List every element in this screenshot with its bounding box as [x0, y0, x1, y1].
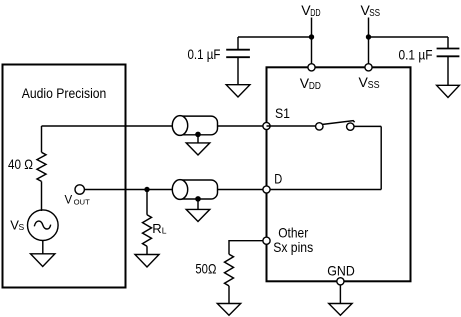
- wire: C1 top lead: [237, 37, 239, 49]
- ground under 50 ohm: [217, 304, 240, 316]
- pin label Other Sx pins: [273, 225, 313, 256]
- wire: VSS to C2: [369, 36, 449, 38]
- ground under VS: [31, 254, 55, 267]
- wire: VDD to C1: [238, 36, 312, 38]
- node VSS (top supply label): [361, 2, 381, 19]
- svg-text:0.1 µF: 0.1 µF: [188, 46, 221, 62]
- ground under C1: [226, 85, 250, 97]
- source VS (sine source): [28, 210, 59, 241]
- switch lever (open): [323, 121, 355, 125]
- junction dot at RL tap: [144, 187, 149, 192]
- ground under coax 2: [186, 209, 210, 221]
- box: DUT / switch IC: [267, 67, 411, 281]
- capacitor C1 plates: [226, 50, 250, 58]
- wire: S1 pin to switch: [267, 125, 316, 127]
- pin label VSS inside: [359, 74, 380, 91]
- capacitor C2 plates: [437, 49, 460, 57]
- svg-text:DD: DD: [309, 81, 321, 92]
- pin GND (open circle on DUT bottom edge): [337, 278, 344, 285]
- coax shield cable 2 (D line): [172, 180, 217, 200]
- wire: 50 ohm bottom lead: [228, 286, 230, 304]
- svg-text:D: D: [274, 170, 282, 186]
- svg-text:50Ω: 50Ω: [195, 260, 216, 276]
- svg-text:Other: Other: [278, 225, 308, 241]
- svg-text:V: V: [65, 195, 73, 207]
- label VOUT: [65, 195, 91, 207]
- junction dot on VSS wire: [366, 34, 371, 39]
- svg-text:L: L: [162, 226, 167, 236]
- wire: VDD vertical feed: [311, 18, 313, 67]
- wire: RL bottom lead: [146, 246, 148, 254]
- wire: VS to ground: [42, 241, 44, 254]
- wire: 40 ohm top lead: [41, 126, 43, 152]
- junction dot on coax 1 shield: [195, 132, 201, 138]
- svg-text:S: S: [19, 222, 25, 232]
- wire: coax 2 shield to ground: [197, 199, 199, 210]
- switch pole contact (open circle): [316, 123, 323, 130]
- svg-text:DD: DD: [310, 8, 320, 19]
- svg-text:S1: S1: [275, 105, 290, 121]
- wire: coax 1 shield to ground: [197, 134, 199, 143]
- svg-text:SS: SS: [369, 8, 380, 19]
- wire: switch to loop corner: [354, 125, 381, 127]
- pin VSS (open circle on DUT top edge): [365, 64, 372, 71]
- svg-text:Sx pins: Sx pins: [273, 239, 313, 255]
- box: Audio Precision source unit: [3, 65, 126, 288]
- switch throw contact (open circle): [347, 123, 354, 130]
- wire: VOUT row to D: [84, 189, 266, 191]
- svg-text:R: R: [152, 221, 161, 236]
- ground under RL: [135, 255, 159, 268]
- ground under C2: [437, 85, 460, 97]
- svg-text:OUT: OUT: [74, 200, 91, 207]
- ground under GND pin: [329, 304, 352, 316]
- pin D (open circle on DUT left edge): [263, 186, 270, 193]
- node VDD (top supply label): [301, 2, 320, 19]
- wire: loop back to D pin: [267, 189, 382, 191]
- terminal VOUT (open circle): [75, 185, 84, 194]
- wire: C2 top lead: [447, 37, 449, 48]
- junction dot on VDD wire: [309, 34, 314, 39]
- svg-text:0.1 µF: 0.1 µF: [399, 46, 433, 62]
- wire: C1 bottom lead: [237, 57, 239, 84]
- wire: loop vertical: [380, 126, 382, 189]
- wire: 40 ohm to source: [41, 181, 43, 211]
- wire: C2 bottom lead: [447, 56, 449, 85]
- resistor RL: [143, 215, 152, 246]
- resistor 50 ohm: [225, 254, 234, 286]
- wire: Other Sx pin to 50 ohm: [229, 241, 263, 255]
- pin VDD (open circle on DUT top edge): [308, 64, 315, 71]
- coax shield cable 1 (S1 line): [172, 116, 217, 136]
- wire: VSS vertical feed: [368, 18, 370, 67]
- ground under coax 1: [186, 143, 210, 155]
- wire: GND pin to ground: [339, 285, 341, 304]
- resistor 40 ohm: [37, 152, 46, 181]
- pin label VDD inside: [300, 75, 321, 92]
- wire: RL top lead: [146, 190, 148, 215]
- pin S1 (open circle on DUT left edge): [263, 122, 270, 129]
- label RL: [152, 221, 166, 236]
- label VS: [10, 217, 24, 232]
- svg-text:GND: GND: [327, 262, 355, 278]
- junction dot on coax 2 shield: [195, 196, 201, 202]
- wire: source output row to S1: [42, 125, 267, 127]
- pin Other Sx (open circle on DUT left edge): [263, 237, 270, 244]
- svg-text:SS: SS: [368, 80, 380, 91]
- svg-text:40 Ω: 40 Ω: [8, 156, 33, 172]
- svg-text:Audio Precision: Audio Precision: [22, 85, 107, 101]
